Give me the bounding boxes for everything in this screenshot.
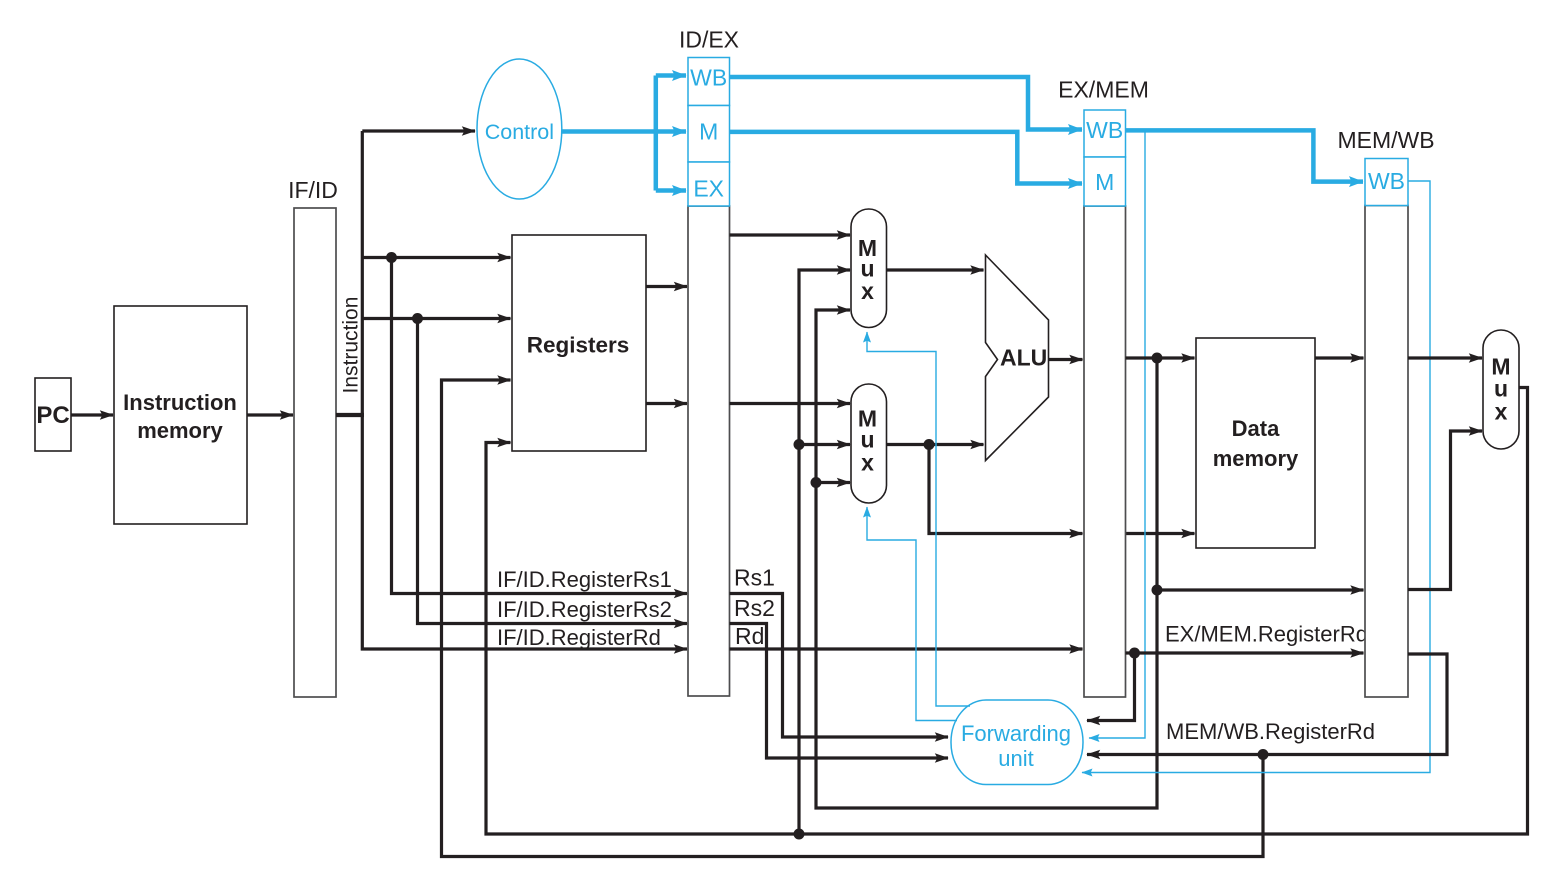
ID/EX EX box — [688, 162, 730, 206]
svg-text:Rs2: Rs2 — [734, 595, 775, 621]
wire cyan trunk at ID/EX — [654, 76, 659, 191]
ID/EX WB box — [688, 58, 730, 106]
instruction memory — [114, 306, 247, 524]
wire ALU result to MEM/WB — [1157, 588, 1364, 591]
svg-text:Rd: Rd — [735, 623, 764, 649]
node dot ALU result tap — [1152, 353, 1163, 364]
node dot forward to mux B — [811, 477, 822, 488]
wire MEM/WB.RegisterRd to forwarding unit — [1087, 654, 1447, 755]
wire cyan to ID/EX EX — [656, 188, 686, 193]
wire Instruction memory to IF/ID — [247, 413, 293, 416]
wire Rd to EX/MEM — [730, 647, 1083, 650]
wire read data 2 — [646, 402, 687, 405]
wire read data 1 — [646, 285, 687, 288]
IF/ID register — [288, 177, 338, 697]
mux B (lower ALU mux) — [851, 384, 887, 503]
svg-text:Data: Data — [1232, 416, 1280, 441]
wire read register 1 — [362, 256, 510, 259]
svg-text:EX: EX — [693, 176, 724, 202]
wire ID/EX M to EX/MEM M (cyan) — [730, 132, 1083, 184]
svg-text:x: x — [861, 449, 874, 475]
data memory — [1196, 338, 1315, 548]
svg-text:IF/ID.RegisterRd: IF/ID.RegisterRd — [497, 625, 661, 650]
wire ALU result forward down — [816, 310, 1157, 808]
node dot Rs2 tap — [412, 313, 423, 324]
node dot ALU result to MEM/WB — [1152, 585, 1163, 596]
wire MEM/WB RegWrite to forwarding unit (cyan thin) — [1082, 181, 1430, 773]
EX/MEM WB box — [1084, 110, 1126, 157]
svg-text:WB: WB — [1086, 117, 1123, 143]
wire ID/EX to mux B top — [730, 402, 851, 405]
svg-text:memory: memory — [137, 418, 223, 443]
svg-text:WB: WB — [690, 65, 727, 91]
Registers — [512, 235, 646, 451]
wire ForwardB (cyan thin) — [867, 507, 957, 721]
svg-text:Rs1: Rs1 — [734, 565, 775, 591]
svg-text:ALU: ALU — [1000, 345, 1047, 371]
svg-text:IF/ID: IF/ID — [288, 177, 338, 203]
svg-text:MEM/WB.RegisterRd: MEM/WB.RegisterRd — [1166, 719, 1375, 744]
wire mux A to ALU — [887, 268, 984, 271]
svg-text:PC: PC — [36, 402, 69, 429]
wire MEM/WB read data to mux — [1408, 356, 1482, 359]
ALU — [986, 255, 1049, 461]
wire write data (from right mux) — [486, 388, 1528, 835]
wire write-back branch to mux B middle — [799, 443, 850, 446]
svg-text:MEM/WB: MEM/WB — [1337, 127, 1434, 153]
wire PC to Instruction memory — [71, 413, 113, 416]
svg-text:Registers: Registers — [527, 333, 630, 358]
node dot EX/MEM.RegisterRd tap — [1129, 648, 1140, 659]
wire IF/ID.RegisterRs2 — [418, 319, 688, 624]
svg-text:Instruction: Instruction — [123, 390, 237, 415]
wire instruction trunk — [362, 131, 687, 649]
svg-text:Instruction: Instruction — [340, 297, 363, 394]
svg-text:IF/ID.RegisterRs2: IF/ID.RegisterRs2 — [497, 597, 672, 622]
EX/MEM M box — [1084, 157, 1126, 206]
wire read register 2 — [362, 317, 510, 320]
wire write-back forward vertical — [799, 270, 850, 834]
wire EX/MEM.RegisterRd to forwarding unit — [1087, 653, 1135, 721]
svg-text:M: M — [1095, 169, 1114, 195]
svg-text:EX/MEM: EX/MEM — [1058, 77, 1149, 103]
wire MEM/WB ALU result to mux — [1408, 431, 1482, 590]
wire ForwardA (cyan thin) — [867, 332, 970, 706]
svg-text:x: x — [1495, 399, 1508, 425]
wire write register (from MEM/WB.RegisterRd) — [442, 380, 1264, 857]
svg-text:unit: unit — [998, 746, 1033, 771]
PC — [35, 378, 71, 451]
wire write data through EX/MEM — [929, 445, 1083, 534]
wire EX/MEM.RegisterRd to MEM/WB — [1126, 651, 1364, 654]
svg-text:M: M — [699, 119, 718, 145]
wire Control to ID/EX M (cyan) — [562, 129, 686, 134]
svg-text:Control: Control — [485, 120, 554, 144]
wire ALU result to EX/MEM — [1049, 358, 1083, 361]
svg-text:EX/MEM.RegisterRd: EX/MEM.RegisterRd — [1165, 622, 1368, 647]
wire trunk to Control — [362, 129, 475, 132]
EX/MEM register body — [1058, 77, 1149, 698]
wire EX/MEM RegWrite to forwarding unit (cyan thin) — [1089, 131, 1145, 738]
wire EX/MEM WB to MEM/WB WB (cyan) — [1126, 130, 1364, 181]
wire mux B to ALU — [887, 443, 984, 446]
wire ID/EX to mux A top — [730, 233, 851, 236]
ID/EX M box — [688, 106, 730, 163]
wire ID/EX WB to EX/MEM WB (cyan) — [730, 77, 1083, 130]
wire Rs2 to forwarding unit — [730, 624, 949, 759]
node dot write-back tap — [794, 829, 805, 840]
wire EX/MEM ALU result to data memory — [1126, 356, 1195, 359]
node dot mux B output tap — [924, 439, 935, 450]
wire IF/ID.RegisterRs1 — [392, 258, 688, 594]
svg-text:ID/EX: ID/EX — [679, 27, 739, 53]
forwarding unit — [951, 700, 1083, 785]
node dot write-back to mux B — [794, 439, 805, 450]
wire write data EX/MEM to data memory — [1126, 532, 1195, 535]
svg-text:Forwarding: Forwarding — [961, 721, 1071, 746]
Control oval — [477, 59, 562, 199]
MEM/WB WB box — [1365, 159, 1408, 206]
wire Rs1 to forwarding unit — [730, 594, 949, 738]
wire cyan to ID/EX WB — [656, 73, 686, 78]
mux A (upper ALU mux) — [851, 209, 887, 328]
wire data memory out to MEM/WB — [1315, 356, 1364, 359]
mux WB (right mux) — [1483, 330, 1519, 449]
svg-text:memory: memory — [1213, 446, 1299, 471]
svg-text:WB: WB — [1368, 168, 1405, 194]
svg-text:IF/ID.RegisterRs1: IF/ID.RegisterRs1 — [497, 567, 672, 592]
MEM/WB register body — [1337, 127, 1434, 697]
svg-text:x: x — [861, 278, 874, 304]
ID/EX register body — [679, 27, 739, 697]
node dot MEM/WB.RegisterRd tap — [1258, 749, 1269, 760]
wire IF/ID instruction output stub — [336, 413, 364, 417]
node dot Rs1 tap — [386, 252, 397, 263]
wire forward branch to mux B bottom — [816, 481, 850, 484]
